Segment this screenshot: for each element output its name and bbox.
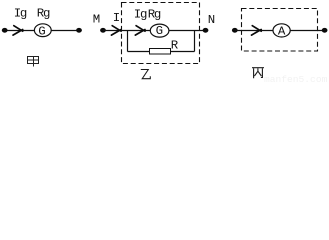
galvanometer G2 <box>150 24 169 38</box>
dashed box 丙 <box>242 9 318 52</box>
svg-text:Rg: Rg <box>37 7 50 21</box>
node terminal dot left <box>232 28 238 33</box>
wire <box>290 30 324 32</box>
wire <box>51 30 79 32</box>
label 丙 (drawn glyph) <box>252 68 264 79</box>
svg-text:G: G <box>156 24 163 38</box>
svg-text:A: A <box>278 25 286 39</box>
current arrow <box>252 26 262 35</box>
wire branch bottom <box>128 51 195 53</box>
svg-text:G: G <box>38 24 45 38</box>
svg-text:I: I <box>113 11 120 25</box>
current arrow inside box <box>135 26 145 35</box>
svg-text:Ig: Ig <box>134 7 147 21</box>
node M dot <box>100 28 106 33</box>
current arrow <box>13 26 23 35</box>
dashed box 乙 <box>122 3 200 64</box>
wire out of G to node N <box>169 30 205 32</box>
svg-text:R: R <box>171 39 179 53</box>
wire <box>235 30 273 32</box>
wire branch left vertical <box>127 31 129 52</box>
svg-text:manfen5.com: manfen5.com <box>264 74 328 83</box>
ammeter A <box>273 24 290 39</box>
wire <box>5 30 35 32</box>
label 乙 (drawn glyph) <box>141 70 151 79</box>
wire branch right vertical <box>194 31 196 52</box>
svg-text:Rg: Rg <box>148 7 161 21</box>
wire into box <box>103 30 151 32</box>
node terminal dot left <box>2 28 8 33</box>
galvanometer G1 <box>34 24 51 39</box>
resistor R <box>150 49 171 55</box>
current arrow I <box>111 26 121 35</box>
node N dot <box>203 28 209 33</box>
svg-text:M: M <box>93 13 100 27</box>
node terminal dot right <box>322 28 328 33</box>
svg-text:N: N <box>208 13 215 27</box>
label 甲 (drawn glyph) <box>28 57 39 67</box>
svg-text:Ig: Ig <box>14 7 27 21</box>
node terminal dot right <box>76 28 82 33</box>
